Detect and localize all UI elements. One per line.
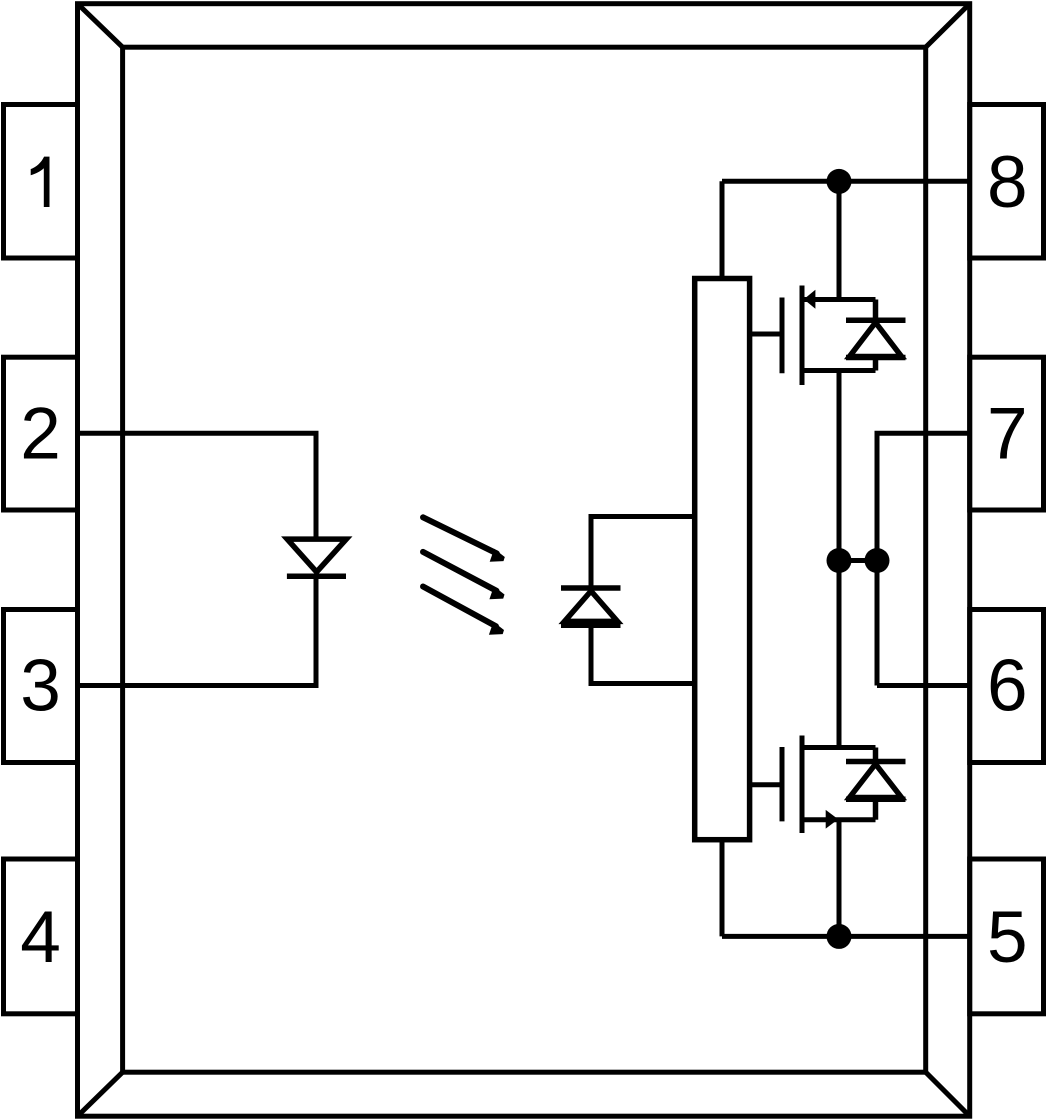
node junction dot bottom rail xyxy=(827,924,852,949)
package bevel corner bottom-left xyxy=(78,1072,123,1116)
transistor Q2 gate wire xyxy=(750,782,782,787)
package bevel corner bottom-right xyxy=(926,1072,970,1116)
svg-text:2: 2 xyxy=(20,394,61,475)
pin 1 label xyxy=(31,157,50,207)
pin 8 box xyxy=(970,105,1044,259)
wire photodiode cathode to driver top-left xyxy=(591,517,695,589)
wire driver bottom to pin5 rail xyxy=(720,840,725,937)
light emission arrow 3 xyxy=(423,587,504,635)
transistor Q2 (bottom MOSFET) xyxy=(782,736,876,834)
wire photodiode anode to driver bottom-left xyxy=(591,625,695,683)
node junction dot common right xyxy=(865,548,890,573)
wire driver top to pin8 rail xyxy=(720,181,725,278)
wire common node down to Q2 drain xyxy=(837,561,842,748)
node junction dot top rail xyxy=(827,169,852,194)
wire top rail to Q1 drain xyxy=(837,181,842,299)
wire Q2 source down to pin5 rail xyxy=(837,820,842,937)
svg-text:3: 3 xyxy=(20,646,61,727)
pin 1 box xyxy=(4,105,78,259)
wire LED cathode to pin3 xyxy=(78,576,317,685)
pin 5 box xyxy=(970,859,1044,1014)
photodiode D2 xyxy=(561,588,621,625)
light emission arrow 1 xyxy=(423,517,505,562)
wire between common junctions xyxy=(839,558,877,563)
pin 6 box xyxy=(970,610,1044,763)
wire pin8 rail xyxy=(722,179,970,184)
pin 3 box xyxy=(4,610,78,763)
wire Q1 source down to common node xyxy=(837,371,842,561)
svg-text:4: 4 xyxy=(20,897,61,978)
svg-text:6: 6 xyxy=(987,646,1028,727)
wire pin2 to LED anode xyxy=(78,433,317,539)
svg-text:8: 8 xyxy=(987,142,1028,223)
transistor Q1 (top MOSFET) xyxy=(782,286,876,386)
wire pin7 to common line xyxy=(877,433,970,685)
driver / control circuit block U1 xyxy=(695,279,750,840)
LED D1 (input LED, anode top) xyxy=(287,539,346,576)
package bevel corner top-left xyxy=(78,4,123,48)
light emission arrow 2 xyxy=(423,552,505,599)
package bevel corner top-right xyxy=(926,4,970,48)
node junction dot common left xyxy=(827,548,852,573)
pin 7 box xyxy=(970,357,1044,510)
transistor Q1 gate wire xyxy=(750,332,782,337)
package inner outline xyxy=(123,47,926,1072)
svg-text:7: 7 xyxy=(987,394,1028,475)
svg-text:5: 5 xyxy=(987,897,1028,978)
wire common line to pin6 xyxy=(877,683,970,688)
body diode D3 of Q1 xyxy=(846,300,906,371)
wire pin5 rail xyxy=(722,934,970,939)
body diode D4 of Q2 xyxy=(846,748,906,820)
pin 2 box xyxy=(4,357,78,510)
pin 4 box xyxy=(4,859,78,1014)
